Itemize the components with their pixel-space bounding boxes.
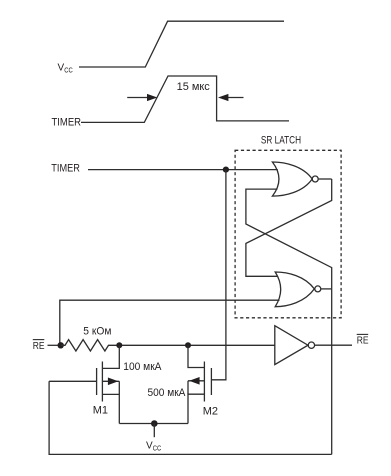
junction RE node — [58, 342, 64, 348]
wire RE to node — [48, 344, 62, 346]
wire RE node up to U2 lower input — [60, 300, 280, 345]
wire feedback bottom rail to M1 gate — [49, 381, 332, 454]
transistor M2 channel bar — [203, 362, 205, 402]
wire U2 output down to feedback rail — [331, 289, 333, 455]
svg-text:CC: CC — [153, 443, 162, 452]
svg-text:500 мкА: 500 мкА — [148, 387, 187, 399]
wire VCC stub — [153, 424, 155, 438]
transistor M1 gate bar — [96, 368, 98, 395]
svg-text:M2: M2 — [203, 406, 218, 418]
svg-text:TIMER: TIMER — [51, 162, 80, 174]
wire main line resistor to inverter input — [112, 344, 275, 346]
inverter U3 output bubble — [308, 342, 314, 348]
M2 drain lead — [188, 345, 204, 367]
NOR gate U2 output bubble — [315, 286, 321, 292]
inverter U3 body — [275, 326, 308, 365]
power VCC label — [146, 440, 162, 452]
NOR gate U1 (top) body — [272, 162, 312, 196]
transistor M2 gate bar — [210, 368, 212, 395]
svg-text:100 мкА: 100 мкА — [123, 361, 162, 373]
M1 source lead — [102, 394, 119, 423]
svg-text:RE: RE — [33, 341, 45, 352]
wire TIMER input to NOR U1 upper input — [88, 169, 278, 171]
junction M2 drain node — [185, 342, 191, 348]
junction VCC node — [151, 420, 158, 427]
transistor M1 channel bar — [101, 362, 103, 402]
wire common source rail — [119, 423, 188, 425]
M1 gate lead — [49, 380, 97, 382]
svg-text:15 мкс: 15 мкс — [177, 81, 211, 93]
M2 bulk-source tie — [187, 381, 189, 394]
M1 drain lead — [102, 345, 119, 368]
wire U2 output to U1 lower input (cross-coupling B) — [246, 189, 332, 289]
wire TIMER node down to M2 gate — [211, 170, 226, 380]
label VCC (waveform) — [58, 62, 74, 74]
NOR gate U1 output bubble — [312, 176, 318, 182]
dimension arrow left-pointing (15 mks) — [226, 97, 244, 99]
svg-text:5 кОм: 5 кОм — [83, 325, 111, 337]
svg-text:TIMER: TIMER — [52, 117, 82, 129]
NOR gate U2 (bottom) body — [275, 272, 314, 307]
M2 source lead — [188, 394, 204, 423]
SR latch dashed box — [235, 150, 341, 317]
M2 bulk lead with arrow — [188, 380, 204, 382]
output RE-bar label — [357, 336, 369, 347]
input RE-bar label — [33, 341, 45, 352]
M1 bulk lead with arrow — [102, 380, 119, 382]
wire U1 output — [318, 178, 332, 180]
waveform VCC trace — [79, 21, 284, 67]
svg-text:RE: RE — [357, 336, 369, 347]
resistor R1 5 kOm — [61, 340, 112, 351]
wire U2 output — [321, 288, 332, 290]
junction M1 drain node — [116, 342, 122, 348]
svg-text:SR LATCH: SR LATCH — [261, 135, 301, 147]
wire U1 output to U2 upper input (cross-coupling A) — [246, 179, 332, 276]
junction TIMER node — [223, 167, 229, 173]
svg-text:CC: CC — [64, 65, 73, 74]
dimension arrow right-pointing (15 mks) — [127, 97, 150, 99]
waveform TIMER trace — [81, 76, 289, 122]
wire inverter output — [315, 344, 352, 346]
M1 bulk-source tie — [118, 381, 120, 394]
svg-text:M1: M1 — [93, 405, 108, 417]
